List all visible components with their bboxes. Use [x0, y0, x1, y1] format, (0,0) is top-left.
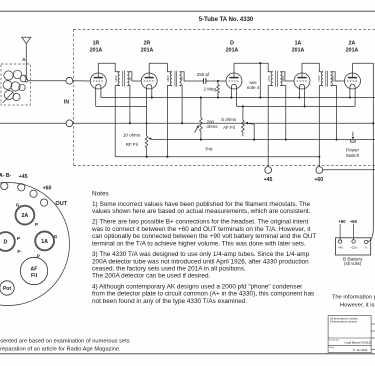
svg-text:Power: Power [346, 147, 359, 152]
svg-text:201A: 201A [141, 48, 154, 54]
antenna [22, 37, 31, 79]
svg-text:Leigh Bassett W3SLB: Leigh Bassett W3SLB [345, 341, 371, 345]
svg-text:AF: AF [31, 267, 38, 273]
tube 1A 201A [294, 63, 310, 89]
layout terminal A- [1, 182, 8, 189]
svg-text:3) The 4330 T/A was designed: 3) The 4330 T/A was designed to use only… [92, 251, 310, 258]
svg-text:+45: +45 [338, 246, 343, 250]
wire 2A plate to OUT / B battery [353, 63, 374, 242]
layout Pot [0, 281, 14, 295]
wire T1 secondary to 2R grid [127, 72, 141, 124]
svg-text:1750: 1750 [267, 75, 271, 82]
svg-text:1800: 1800 [166, 75, 170, 82]
layout socket D [0, 232, 15, 251]
wire common rail A+ [73, 122, 374, 124]
svg-text:D: D [230, 41, 234, 47]
wire 1R filament legs [96, 89, 101, 107]
svg-text:was to connect it between the: was to connect it between the +60 and OU… [91, 226, 311, 233]
wire IN to 1R grid [73, 80, 91, 82]
rheostat AF Fil 5 ohms [242, 106, 244, 136]
svg-text:values shown here are based on: values shown here are based on actual me… [92, 208, 311, 215]
svg-text:1700: 1700 [317, 75, 321, 82]
wire 1A plate to T4 primary [302, 63, 323, 166]
terminal IN lower [66, 120, 73, 127]
svg-text:note 4: note 4 [247, 85, 260, 90]
svg-text:However, it is: However, it is [340, 303, 375, 309]
resistor 2 Meg grid leak [217, 81, 219, 98]
svg-text:P: P [35, 222, 38, 227]
rheostat RF Fil wiper arrow [150, 138, 154, 141]
svg-text:17 Jan 2009: 17 Jan 2009 [353, 348, 368, 352]
antenna coil [3, 70, 27, 102]
wire D filament legs [231, 89, 236, 107]
svg-text:5 ohms: 5 ohms [221, 117, 237, 122]
svg-text:Pot: Pot [206, 146, 214, 151]
svg-text:4) Although contemporary AK de: 4) Although contemporary AK designs used… [92, 284, 303, 291]
layout terminal +45 [30, 190, 37, 197]
svg-text:1850: 1850 [114, 75, 118, 82]
layout terminal +60/OUT [41, 199, 48, 206]
svg-text:The information presented: The information presented [332, 295, 375, 301]
layout AF Fil rheostat [20, 257, 47, 284]
svg-text:+45: +45 [264, 177, 273, 183]
svg-text:+22½: +22½ [350, 246, 358, 250]
svg-text:Date: Date [329, 346, 334, 349]
rheostat 200 ohms wiper arrow [195, 127, 198, 133]
svg-text:preparation of an article for: preparation of an article for Radio Age … [0, 346, 121, 352]
tube 2A 201A [345, 63, 361, 89]
wire +60 to edge [323, 169, 375, 171]
tube 1R 201A [90, 63, 106, 89]
svg-text:2R: 2R [144, 41, 151, 47]
svg-text:RF Fil: RF Fil [126, 142, 138, 147]
wire D plate to T3 primary [234, 63, 273, 166]
svg-text:+90: +90 [338, 219, 346, 224]
wire filament rail B left [96, 105, 147, 107]
svg-text:ceased, the factory sets used: ceased, the factory sets used the 201A i… [92, 266, 246, 273]
wire +60 lead [353, 224, 355, 240]
sheet top border [0, 10, 375, 12]
svg-text:2 Meg: 2 Meg [203, 86, 216, 91]
rheostat AF Fil wiper arrow [247, 123, 254, 139]
battery B box [336, 238, 371, 255]
svg-text:from the detector plate to cir: from the detector plate to circuit commo… [92, 291, 314, 298]
svg-text:IN: IN [64, 100, 69, 106]
wire filament rail B right [237, 105, 356, 107]
svg-text:can optionally be connected be: can optionally be connected between the … [92, 233, 316, 240]
svg-text:Notes: Notes [92, 191, 109, 198]
svg-text:AF Fil: AF Fil [223, 125, 235, 130]
wire T2 secondary to grid condenser [180, 72, 204, 124]
svg-text:Pot: Pot [3, 286, 11, 292]
svg-text:terminal on the T/A to achieve: terminal on the T/A to achieve higher vo… [92, 240, 306, 247]
svg-text:G: G [16, 202, 20, 207]
svg-text:All dimensions nominal: All dimensions nominal [330, 320, 357, 324]
svg-text:Switch: Switch [346, 153, 360, 158]
svg-text:+45: +45 [19, 174, 28, 180]
layout socket 2A [16, 206, 35, 225]
layout terminal B- [18, 184, 25, 191]
wire bottom return rail [115, 156, 319, 158]
svg-text:F-: F- [17, 249, 22, 254]
svg-text:+60: +60 [314, 177, 323, 183]
transformer T4 (1A-2A) [321, 71, 332, 87]
junction T1 secondary return on common rail [129, 122, 131, 124]
antenna coupler dashed box [1, 64, 30, 105]
svg-text:+60: +60 [43, 186, 52, 192]
capacitor 250 pf grid condenser [204, 78, 227, 84]
battery terminal +45 [338, 240, 341, 243]
svg-text:3050: 3050 [331, 75, 335, 82]
svg-text:2A: 2A [21, 213, 28, 219]
svg-text:A- B-: A- B- [0, 173, 12, 179]
wire 2R filament legs / RF rheostat drop [147, 89, 152, 136]
schematic boundary dashed box [74, 30, 375, 166]
wire 2A filament legs [350, 89, 355, 107]
tube D 201A [226, 63, 242, 89]
svg-text:P: P [17, 236, 20, 241]
junction T2 secondary return on common rail [181, 122, 183, 124]
svg-text:200A detector tube was not int: 200A detector tube was not introduced un… [92, 258, 309, 265]
svg-text:3250: 3250 [281, 75, 285, 82]
junction common rail / OUT lead [372, 122, 374, 124]
svg-text:+60: +60 [350, 219, 358, 224]
svg-text:201A: 201A [292, 48, 305, 54]
svg-text:OUT: OUT [55, 201, 67, 207]
svg-text:10 ohms: 10 ohms [123, 133, 141, 138]
svg-text:250 pf: 250 pf [197, 72, 210, 77]
terminal +60 [316, 167, 323, 174]
rheostat RF Fil 10 ohms [145, 136, 148, 148]
svg-text:Drawn by: Drawn by [329, 339, 339, 342]
rheostat 200 ohms [200, 98, 202, 140]
wire common rail (left of lower IN) [0, 122, 66, 124]
svg-text:5-Tube TA No. 4330: 5-Tube TA No. 4330 [199, 17, 254, 23]
svg-text:201A: 201A [346, 48, 359, 54]
svg-text:ohms: ohms [207, 124, 219, 129]
battery terminal +22.5 [352, 240, 355, 243]
svg-text:1R: 1R [93, 41, 100, 47]
wire 2R plate to T2 primary [149, 63, 172, 157]
wire T4 secondary to 2A grid [331, 72, 345, 140]
svg-text:1) Some incorrect values have: 1) Some incorrect values have been publi… [92, 201, 310, 208]
wire +90 lead [339, 224, 341, 240]
sheet bottom border [0, 353, 375, 355]
svg-text:2A: 2A [349, 41, 356, 47]
power switch [351, 132, 356, 142]
svg-text:D: D [3, 240, 7, 246]
tube 2R 201A [141, 63, 157, 89]
wire 1A filament legs [299, 89, 304, 107]
svg-text:Fil: Fil [31, 273, 38, 279]
svg-text:The 200A detector can be used: The 200A detector can be used if desired… [92, 273, 211, 280]
svg-text:(45 volts): (45 volts) [344, 261, 362, 266]
svg-text:not been found in any of the t: not been found in any of the type 4330 T… [92, 298, 247, 305]
svg-text:2) There are two possible B+ c: 2) There are two possible B+ connections… [92, 219, 309, 226]
terminal IN upper [66, 77, 73, 84]
svg-text:201A: 201A [90, 48, 103, 54]
transformer T1 (1R-2R) [118, 71, 129, 87]
svg-text:5S: 5S [180, 77, 184, 81]
terminal +45 [265, 167, 272, 174]
wire coil to IN terminal [28, 80, 66, 82]
svg-text:values presented are based on: values presented are based on examinatio… [0, 339, 130, 345]
wire potentiometer rail [154, 139, 375, 141]
svg-text:G: G [54, 234, 58, 239]
svg-text:1C: 1C [128, 77, 132, 81]
svg-text:1A: 1A [41, 239, 48, 245]
junction node antenna/coil [25, 79, 28, 82]
transformer T2 (2R-D) [170, 71, 181, 87]
layout socket 1A [35, 232, 54, 251]
svg-text:201A: 201A [226, 48, 239, 54]
title block [328, 316, 375, 353]
battery terminal 0 [365, 240, 368, 243]
chassis layout plate circle [0, 183, 70, 306]
wire T3 secondary to 1A grid [280, 72, 294, 140]
transformer T3 (D-1A) [271, 71, 282, 87]
wire filament rail A [101, 97, 375, 99]
svg-text:1A: 1A [295, 41, 302, 47]
